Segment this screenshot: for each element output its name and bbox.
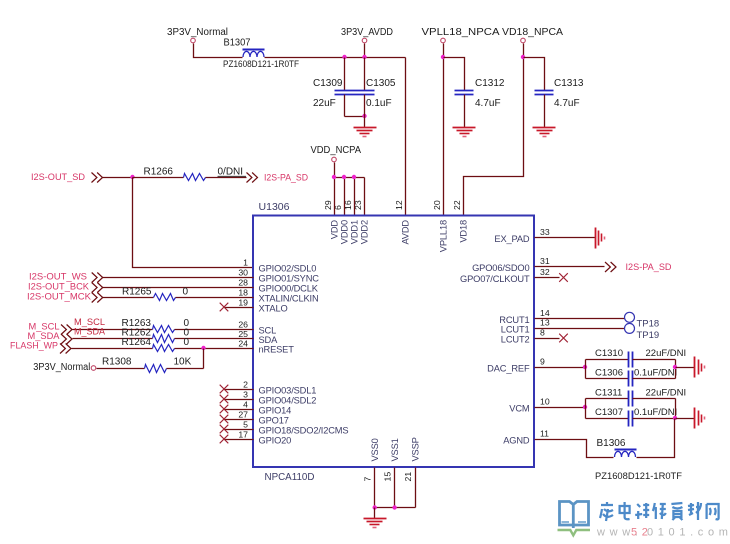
svg-text:C1309: C1309 (313, 78, 343, 89)
capacitor C1310 22uF/DNI (586, 359, 629, 361)
wire I2S-OUT_BCK to pin 28 (103, 287, 254, 289)
svg-text:C1305: C1305 (366, 78, 396, 89)
svg-text:GPO06/SDO0: GPO06/SDO0 (472, 263, 529, 273)
watermark text 家电维修资料网 (drawn strokes) (600, 502, 719, 521)
svg-text:VDD0: VDD0 (339, 220, 349, 244)
svg-text:22uF/DNI: 22uF/DNI (646, 388, 687, 399)
ground (C1312) (453, 127, 476, 129)
svg-text:VDD2: VDD2 (359, 220, 369, 244)
svg-text:14: 14 (540, 308, 550, 318)
wire DAC_REF left bar (585, 360, 587, 379)
wire pin 9 DAC_REF (535, 367, 586, 369)
capacitor C1311 22uF/DNI (586, 398, 629, 400)
svg-text:PZ1608D121-1R0TF: PZ1608D121-1R0TF (223, 59, 299, 70)
svg-text:9: 9 (540, 357, 545, 367)
svg-text:10: 10 (540, 397, 550, 407)
svg-text:SCL: SCL (259, 326, 277, 336)
svg-text:GPIO03/SDL1: GPIO03/SDL1 (259, 386, 317, 396)
svg-text:13: 13 (540, 318, 550, 328)
junction dots on 3P3V rail (342, 55, 346, 59)
svg-text:27: 27 (238, 410, 248, 420)
ferrite bead B1307 (243, 49, 265, 51)
svg-text:DAC_REF: DAC_REF (487, 364, 530, 374)
ferrite bead B1306 (615, 449, 637, 451)
wire I2S-OUT_WS to pin 30 (103, 277, 254, 279)
ground (VSS) (374, 508, 376, 519)
op-amp U1306 NPCA110D (main IC body) (253, 216, 534, 468)
svg-text:GPIO02/SDL0: GPIO02/SDL0 (259, 264, 317, 274)
capacitor C1307 0.1uF/DNI (586, 418, 629, 420)
svg-text:11: 11 (540, 429, 549, 439)
wire VPLL18 to pin 20 (443, 44, 445, 216)
svg-text:XTALIN/CLKIN: XTALIN/CLKIN (259, 294, 319, 304)
svg-text:C1310: C1310 (595, 348, 623, 359)
svg-text:I2S-PA_SD: I2S-PA_SD (264, 173, 308, 184)
svg-text:2: 2 (243, 380, 248, 390)
svg-text:nRESET: nRESET (259, 345, 295, 355)
svg-text:16: 16 (343, 200, 353, 210)
ground (DAC_REF, rotated) (694, 357, 696, 378)
svg-text:1: 1 (243, 258, 248, 268)
svg-text:33: 33 (540, 227, 550, 237)
no-connect X stub (y=419) (225, 419, 254, 421)
svg-text:NPCA110D: NPCA110D (265, 472, 315, 483)
svg-text:I2S-PA_SD: I2S-PA_SD (626, 262, 672, 273)
svg-text:I2S-OUT_MCK: I2S-OUT_MCK (27, 292, 92, 303)
wire R1308 to junction (167, 368, 204, 370)
svg-text:10K: 10K (174, 357, 192, 368)
svg-text:LCUT1: LCUT1 (501, 325, 530, 335)
svg-text:0: 0 (183, 287, 189, 298)
svg-text:12: 12 (394, 200, 404, 210)
wire R1265 to pin 18 (176, 297, 254, 299)
svg-text:0.1uF/DNI: 0.1uF/DNI (634, 368, 677, 379)
svg-text:4.7uF: 4.7uF (475, 98, 501, 109)
svg-text:22uF/DNI: 22uF/DNI (646, 348, 687, 359)
svg-text:0.1uF: 0.1uF (366, 98, 392, 109)
svg-text:22uF: 22uF (313, 98, 336, 109)
capacitor C1309 22uF (344, 58, 346, 91)
svg-text:GPIO00/DCLK: GPIO00/DCLK (259, 284, 319, 294)
svg-text:B1307: B1307 (224, 38, 251, 49)
svg-text:18: 18 (238, 288, 248, 298)
svg-text:R1264: R1264 (122, 337, 152, 348)
svg-text:3P3V_AVDD: 3P3V_AVDD (341, 27, 393, 38)
svg-text:0 1 0 1 . c o m: 0 1 0 1 . c o m (647, 527, 729, 539)
svg-text:4.7uF: 4.7uF (554, 98, 580, 109)
svg-text:SDA: SDA (259, 335, 279, 345)
no-connect X stub (y=399) (225, 399, 254, 401)
capacitor C1312 4.7uF (444, 58, 465, 91)
ground (EX_PAD, rotated) (595, 228, 597, 249)
wire pin 13 to TP19 (535, 328, 625, 330)
test point TP18 (625, 312, 635, 322)
svg-text:22: 22 (452, 200, 462, 210)
wire C1309 bottom to C1305 bottom (345, 116, 365, 118)
capacitor C1313 4.7uF (524, 58, 545, 91)
svg-text:VDD1: VDD1 (349, 220, 359, 244)
wire VSS1 pin 15 (394, 468, 396, 508)
resistor R1262 0 (73, 338, 153, 340)
svg-text:20: 20 (432, 200, 442, 210)
svg-text:VPLL18_NPCA: VPLL18_NPCA (422, 27, 500, 38)
ground (3P3V_AVDD decoupling) (354, 127, 377, 129)
svg-text:RCUT1: RCUT1 (499, 315, 529, 325)
wire VD18 to pin 22 (464, 44, 524, 216)
resistor R1308 10K (97, 368, 145, 370)
resistor R1264 0 (72, 348, 153, 350)
svg-text:24: 24 (238, 339, 248, 349)
wire bead to analog ground node (637, 419, 675, 458)
svg-text:R1265: R1265 (122, 287, 152, 298)
capacitor C1306 0.1uF/DNI (586, 378, 629, 380)
svg-text:21: 21 (403, 472, 413, 482)
svg-text:GPIO14: GPIO14 (259, 406, 292, 416)
wire VSSP pin 21 (415, 468, 417, 508)
svg-text:VD18: VD18 (458, 220, 468, 243)
wire DAC_REF right bar (675, 360, 677, 379)
no-connect X stub (y=389) (225, 389, 254, 391)
svg-text:C1313: C1313 (554, 78, 584, 89)
wire I2S-OUT_SD (103, 177, 133, 179)
watermark logo: book icon (560, 502, 589, 529)
svg-text:VDD_NCPA: VDD_NCPA (311, 145, 362, 156)
wire R1264 to pin 24 nRESET (175, 348, 254, 350)
wire VSS bus (375, 507, 416, 509)
resistor R1266 0/DNI (184, 174, 206, 181)
svg-text:C1307: C1307 (595, 407, 623, 418)
svg-text:3P3V_Normal: 3P3V_Normal (33, 362, 90, 373)
svg-text:M_SCL: M_SCL (74, 317, 105, 327)
svg-text:VPLL18: VPLL18 (438, 220, 448, 252)
resistor R1265 0 (103, 297, 154, 299)
svg-text:3: 3 (243, 390, 248, 400)
svg-text:15: 15 (383, 472, 393, 482)
svg-text:TP19: TP19 (637, 330, 660, 341)
svg-text:PZ1608D121-1R0TF: PZ1608D121-1R0TF (595, 471, 682, 482)
wire pin 14 to TP18 (535, 318, 625, 320)
svg-text:VSS1: VSS1 (390, 438, 400, 461)
svg-text:AVDD: AVDD (400, 220, 410, 245)
svg-text:19: 19 (238, 298, 248, 308)
svg-text:23: 23 (353, 200, 363, 210)
no-connect X pin 8 (535, 338, 560, 340)
svg-text:VD18_NPCA: VD18_NPCA (502, 27, 563, 38)
capacitor C1305 0.1uF (364, 58, 366, 91)
wire VDD_NCPA bus (334, 163, 336, 216)
svg-text:B1306: B1306 (597, 438, 626, 449)
svg-text:R1266: R1266 (144, 167, 174, 178)
wire EX_PAD pin 33 (535, 237, 596, 239)
svg-text:31: 31 (540, 256, 550, 266)
svg-text:6: 6 (333, 205, 343, 210)
svg-text:4: 4 (243, 400, 248, 410)
svg-text:I2S-OUT_SD: I2S-OUT_SD (31, 172, 85, 183)
test point TP19 (625, 323, 635, 333)
svg-text:7: 7 (363, 477, 373, 482)
ground (C1313) (533, 127, 556, 129)
svg-text:R1308: R1308 (102, 357, 132, 368)
svg-text:XTALO: XTALO (259, 304, 288, 314)
wire 3P3V_Normal to bead B1307 (194, 44, 243, 58)
svg-text:25: 25 (238, 329, 248, 339)
svg-text:32: 32 (540, 267, 550, 277)
svg-text:3P3V_Normal: 3P3V_Normal (167, 27, 228, 38)
wire VSS0 pin 7 (374, 468, 376, 508)
svg-text:LCUT2: LCUT2 (501, 335, 530, 345)
svg-text:26: 26 (238, 320, 248, 330)
svg-text:U1306: U1306 (259, 202, 291, 213)
svg-text:GPIO04/SDL2: GPIO04/SDL2 (259, 396, 317, 406)
no-connect X pin 19 (225, 307, 254, 309)
wire R1263 to pin 26 SCL (175, 329, 254, 331)
svg-text:TP18: TP18 (637, 319, 660, 330)
svg-text:GPIO18/SDO2/I2CMS: GPIO18/SDO2/I2CMS (259, 426, 349, 436)
no-connect X stub (y=429) (225, 429, 254, 431)
svg-text:GPO17: GPO17 (259, 416, 289, 426)
svg-text:C1311: C1311 (595, 388, 622, 399)
no-connect X pin 32 (535, 277, 560, 279)
svg-text:GPO07/CLKOUT: GPO07/CLKOUT (460, 274, 530, 284)
svg-text:VCM: VCM (509, 404, 529, 414)
svg-text:0: 0 (184, 337, 190, 348)
svg-text:0.1uF/DNI: 0.1uF/DNI (634, 407, 677, 418)
svg-text:EX_PAD: EX_PAD (494, 234, 530, 244)
no-connect X stub (y=409) (225, 409, 254, 411)
wire R1262 to pin 25 SDA (175, 338, 254, 340)
svg-text:GPIO20: GPIO20 (259, 436, 292, 446)
wire VCM left bar (585, 399, 587, 419)
svg-text:C1312: C1312 (475, 78, 505, 89)
svg-text:VDD: VDD (329, 220, 339, 240)
ground (VCM, rotated) (694, 408, 696, 429)
wire pin 11 AGND to bead (535, 440, 614, 458)
wire pullup junction riser (203, 349, 205, 369)
svg-text:GPIO01/SYNC: GPIO01/SYNC (259, 274, 320, 284)
no-connect X stub (y=439) (225, 439, 254, 441)
wire AVDD riser to pin 12 (405, 58, 407, 216)
wire junction to pin 1 (133, 178, 254, 268)
resistor R1263 0 (73, 329, 153, 331)
off-page connector I2S-PA_SD (left) (247, 173, 258, 183)
svg-text:29: 29 (323, 200, 333, 210)
wire pin 31 to off-page I2S-PA_SD (535, 266, 605, 268)
svg-text:AGND: AGND (503, 436, 530, 446)
svg-text:17: 17 (238, 430, 248, 440)
svg-text:VSS0: VSS0 (370, 438, 380, 461)
wire bead to AVDD riser (265, 57, 406, 59)
svg-text:M_SDA: M_SDA (74, 327, 105, 337)
wire VCM right bar (675, 399, 677, 419)
off-page connector I2S-PA_SD (right) (605, 262, 616, 272)
svg-text:30: 30 (238, 268, 248, 278)
wire pin 10 VCM (535, 407, 586, 409)
svg-text:5: 5 (243, 420, 248, 430)
svg-text:C1306: C1306 (595, 368, 623, 379)
svg-text:FLASH_WP: FLASH_WP (10, 341, 58, 352)
svg-text:28: 28 (238, 278, 248, 288)
svg-text:VSSP: VSSP (410, 437, 420, 461)
